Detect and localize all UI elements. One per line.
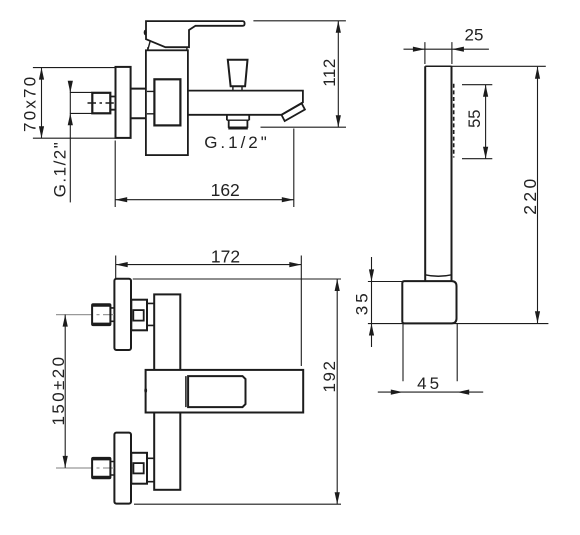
svg-text:45: 45 xyxy=(417,374,442,393)
svg-text:G.1/2": G.1/2" xyxy=(204,133,270,152)
svg-text:35: 35 xyxy=(352,290,371,315)
svg-text:25: 25 xyxy=(465,26,484,45)
svg-text:70x70: 70x70 xyxy=(21,75,40,132)
svg-text:162: 162 xyxy=(211,180,240,200)
svg-text:G.1/2": G.1/2" xyxy=(50,141,69,198)
svg-text:55: 55 xyxy=(466,110,484,128)
svg-text:192: 192 xyxy=(320,360,339,393)
svg-text:172: 172 xyxy=(211,246,240,266)
svg-text:150±20: 150±20 xyxy=(49,354,68,425)
svg-text:112: 112 xyxy=(320,58,339,87)
svg-text:220: 220 xyxy=(520,175,540,214)
